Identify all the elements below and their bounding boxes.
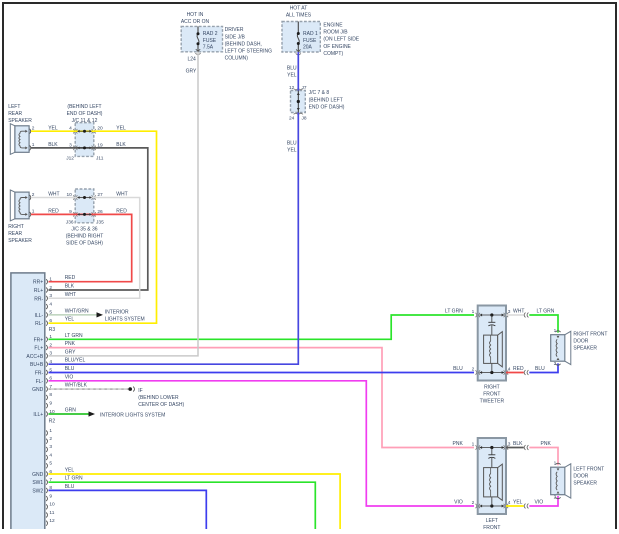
svg-text:BLU: BLU — [65, 366, 75, 372]
svg-text:WHT: WHT — [513, 309, 524, 315]
svg-text:ROOM J/B: ROOM J/B — [323, 30, 348, 36]
svg-text:PNK: PNK — [65, 341, 76, 347]
svg-text:BLK: BLK — [513, 441, 523, 447]
svg-text:HOT AT: HOT AT — [290, 5, 308, 11]
svg-text:GRN: GRN — [65, 408, 77, 414]
svg-text:SIDE J/B: SIDE J/B — [225, 34, 246, 40]
svg-text:L24: L24 — [188, 57, 197, 63]
svg-text:5: 5 — [49, 461, 52, 467]
svg-text:ACC+B: ACC+B — [26, 354, 43, 360]
svg-text:2: 2 — [472, 366, 475, 372]
svg-text:(BEHIND LEFT: (BEHIND LEFT — [67, 104, 101, 110]
svg-text:YEL: YEL — [513, 500, 523, 506]
svg-text:J35: J35 — [96, 219, 104, 225]
svg-text:J11: J11 — [96, 155, 104, 161]
svg-text:LEFT: LEFT — [486, 518, 498, 524]
svg-text:YEL: YEL — [287, 72, 297, 78]
svg-text:FRONT: FRONT — [483, 392, 500, 398]
svg-text:1: 1 — [472, 441, 475, 447]
svg-text:LT GRN: LT GRN — [65, 333, 83, 339]
svg-text:BLK: BLK — [65, 284, 75, 290]
svg-text:BLU: BLU — [453, 366, 463, 372]
svg-text:REAR: REAR — [8, 111, 22, 117]
svg-text:J/C 11 & 12: J/C 11 & 12 — [72, 118, 98, 124]
svg-text:J/C 35 & 36: J/C 35 & 36 — [71, 226, 97, 232]
svg-text:RED: RED — [116, 209, 127, 215]
svg-text:7.5A: 7.5A — [203, 44, 214, 50]
svg-text:RED: RED — [513, 366, 524, 372]
svg-text:J8: J8 — [302, 115, 307, 121]
svg-text:YEL: YEL — [287, 148, 297, 154]
svg-text:INTERIOR LIGHTS SYSTEM: INTERIOR LIGHTS SYSTEM — [100, 413, 165, 419]
svg-text:RIGHT: RIGHT — [8, 224, 24, 230]
svg-text:(BEHIND LOWER: (BEHIND LOWER — [138, 395, 179, 401]
svg-text:SW2: SW2 — [32, 488, 43, 494]
svg-text:BLU: BLU — [65, 484, 75, 490]
svg-text:COLUMN): COLUMN) — [225, 56, 249, 62]
svg-text:R3: R3 — [49, 327, 56, 333]
svg-text:BLU/YEL: BLU/YEL — [65, 358, 86, 364]
svg-text:12: 12 — [49, 518, 55, 524]
svg-text:J/C 7 & 8: J/C 7 & 8 — [309, 90, 330, 96]
svg-text:PNK: PNK — [541, 441, 552, 447]
svg-text:20A: 20A — [303, 44, 313, 50]
svg-text:WHT: WHT — [65, 292, 76, 298]
svg-text:DOOR: DOOR — [573, 339, 588, 345]
svg-text:YEL: YEL — [65, 468, 75, 474]
svg-text:DRIVER: DRIVER — [225, 27, 244, 33]
svg-text:WHT/BLK: WHT/BLK — [65, 383, 88, 389]
svg-text:BLK: BLK — [116, 142, 126, 148]
svg-text:RIGHT FRONT: RIGHT FRONT — [573, 332, 607, 338]
svg-text:SPEAKER: SPEAKER — [8, 118, 32, 124]
svg-text:WHT: WHT — [116, 192, 127, 198]
svg-text:HOT IN: HOT IN — [187, 12, 204, 18]
svg-text:FL-: FL- — [36, 379, 44, 385]
svg-text:RED: RED — [65, 275, 76, 281]
svg-text:GND: GND — [32, 472, 44, 478]
svg-text:9: 9 — [49, 401, 52, 407]
svg-text:R2: R2 — [49, 419, 56, 425]
svg-text:1: 1 — [49, 428, 52, 434]
svg-text:FL+: FL+ — [34, 346, 43, 352]
svg-text:DOOR: DOOR — [573, 474, 588, 480]
svg-text:LT GRN: LT GRN — [65, 476, 83, 482]
svg-text:BLU: BLU — [535, 366, 545, 372]
svg-text:J12: J12 — [66, 155, 74, 161]
svg-text:LEFT FRONT: LEFT FRONT — [573, 467, 604, 473]
svg-text:BLK: BLK — [48, 142, 58, 148]
svg-text:ACC OR ON: ACC OR ON — [181, 19, 210, 25]
svg-text:IF: IF — [138, 388, 142, 394]
svg-text:1: 1 — [554, 461, 557, 467]
svg-text:VIO: VIO — [65, 374, 74, 380]
svg-text:LT GRN: LT GRN — [445, 309, 463, 315]
svg-text:PNK: PNK — [453, 441, 464, 447]
svg-text:2: 2 — [472, 500, 475, 506]
svg-text:4: 4 — [508, 500, 511, 506]
svg-text:RAD 2: RAD 2 — [203, 31, 218, 37]
svg-text:OF ENGINE: OF ENGINE — [323, 44, 351, 50]
svg-text:WHT/GRN: WHT/GRN — [65, 308, 89, 314]
svg-text:END OF DASH): END OF DASH) — [309, 104, 345, 110]
svg-text:RIGHT: RIGHT — [484, 385, 500, 391]
svg-text:RR-: RR- — [34, 296, 43, 302]
svg-text:(ON LEFT SIDE: (ON LEFT SIDE — [323, 37, 359, 43]
svg-text:FR+: FR+ — [34, 337, 44, 343]
svg-text:11: 11 — [49, 510, 54, 516]
svg-text:ALL TIMES: ALL TIMES — [286, 12, 312, 18]
svg-text:END OF DASH): END OF DASH) — [67, 111, 103, 117]
svg-text:ENGINE: ENGINE — [323, 23, 343, 29]
svg-text:SW1: SW1 — [32, 480, 43, 486]
svg-text:ILL-: ILL- — [35, 313, 44, 319]
svg-text:BLU: BLU — [287, 65, 297, 71]
svg-text:9: 9 — [49, 493, 52, 499]
svg-text:LEFT: LEFT — [8, 104, 20, 110]
svg-text:24: 24 — [289, 115, 295, 121]
svg-text:J7: J7 — [302, 85, 307, 91]
svg-text:10: 10 — [49, 502, 55, 508]
svg-text:RR+: RR+ — [33, 280, 43, 286]
svg-text:J36: J36 — [66, 219, 74, 225]
svg-text:GRY: GRY — [186, 69, 197, 75]
svg-text:2: 2 — [554, 361, 557, 367]
svg-text:SIDE OF DASH): SIDE OF DASH) — [66, 241, 103, 247]
svg-text:WHT: WHT — [48, 192, 59, 198]
svg-text:1: 1 — [554, 328, 557, 334]
svg-text:LIGHTS SYSTEM: LIGHTS SYSTEM — [105, 317, 145, 323]
svg-text:4: 4 — [49, 301, 52, 307]
svg-text:FUSE: FUSE — [203, 38, 217, 44]
svg-text:LEFT OF STEERING: LEFT OF STEERING — [225, 49, 273, 55]
svg-text:RL-: RL- — [35, 321, 43, 327]
svg-text:3: 3 — [49, 444, 52, 450]
svg-text:REAR: REAR — [8, 231, 22, 237]
svg-text:CENTER OF DASH): CENTER OF DASH) — [138, 402, 184, 408]
svg-text:FUSE: FUSE — [303, 38, 317, 44]
svg-text:YEL: YEL — [65, 317, 75, 323]
svg-text:SPEAKER: SPEAKER — [573, 345, 597, 351]
svg-text:3: 3 — [508, 441, 511, 447]
svg-text:SPEAKER: SPEAKER — [8, 238, 32, 244]
svg-text:8: 8 — [49, 392, 52, 398]
svg-text:LT GRN: LT GRN — [537, 309, 555, 315]
svg-text:RAD 1: RAD 1 — [303, 31, 318, 37]
svg-text:(BEHIND LEFT: (BEHIND LEFT — [309, 97, 343, 103]
svg-text:GRY: GRY — [65, 349, 76, 355]
svg-text:FRONT: FRONT — [483, 525, 500, 529]
svg-text:BU+B: BU+B — [30, 362, 44, 368]
svg-text:SPEAKER: SPEAKER — [573, 480, 597, 486]
svg-text:4: 4 — [508, 366, 511, 372]
svg-text:FR-: FR- — [35, 371, 44, 377]
svg-text:BLU: BLU — [287, 141, 297, 147]
svg-text:2: 2 — [49, 436, 52, 442]
svg-text:INTERIOR: INTERIOR — [105, 310, 129, 316]
svg-text:TWEETER: TWEETER — [480, 399, 505, 405]
svg-text:GND: GND — [32, 387, 44, 393]
svg-text:3: 3 — [508, 309, 511, 315]
svg-text:COMPT): COMPT) — [323, 51, 343, 57]
svg-text:RED: RED — [48, 209, 59, 215]
svg-text:VIO: VIO — [535, 500, 544, 506]
svg-text:RL+: RL+ — [34, 288, 43, 294]
svg-text:(BEHIND DASH,: (BEHIND DASH, — [225, 41, 262, 47]
svg-text:ILL+: ILL+ — [33, 412, 43, 418]
svg-text:YEL: YEL — [48, 125, 58, 131]
svg-text:VIO: VIO — [454, 500, 463, 506]
svg-text:4: 4 — [49, 452, 52, 458]
svg-text:1: 1 — [472, 309, 475, 315]
svg-text:(BEHIND RIGHT: (BEHIND RIGHT — [66, 234, 104, 240]
svg-text:12: 12 — [289, 85, 295, 91]
svg-text:2: 2 — [554, 495, 557, 501]
svg-text:YEL: YEL — [116, 125, 126, 131]
